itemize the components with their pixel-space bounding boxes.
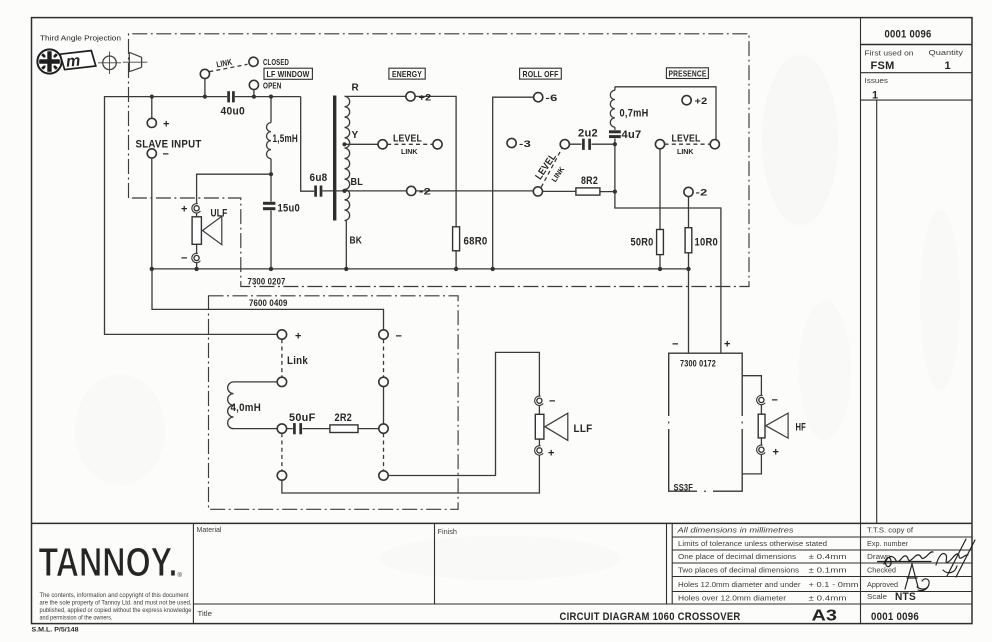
svg-text:-2: -2 <box>696 188 708 198</box>
svg-text:are the sole property of Tanno: are the sole property of Tannoy Ltd. and… <box>40 600 192 607</box>
svg-text:−: − <box>672 339 679 351</box>
svg-text:T.T.S. copy of: T.T.S. copy of <box>867 528 913 535</box>
svg-text:LINK: LINK <box>677 147 694 156</box>
svg-text:LEVEL: LEVEL <box>672 134 701 145</box>
svg-text:Holes 12.0mm diameter and unde: Holes 12.0mm diameter and under <box>678 582 801 589</box>
svg-text:OPEN: OPEN <box>263 81 282 91</box>
svg-text:1,5mH: 1,5mH <box>273 133 299 145</box>
svg-text:+: + <box>181 204 188 216</box>
svg-text:LF WINDOW: LF WINDOW <box>267 69 311 79</box>
svg-text:+ 0.1 - 0mm: + 0.1 - 0mm <box>809 582 859 589</box>
svg-text:ULF: ULF <box>211 207 228 219</box>
svg-text:R: R <box>352 83 360 94</box>
svg-text:−: − <box>181 253 188 265</box>
svg-text:Material: Material <box>197 527 222 534</box>
svg-text:7300 0207: 7300 0207 <box>248 277 286 287</box>
svg-text:+: + <box>773 447 780 459</box>
svg-text:15u0: 15u0 <box>278 203 301 215</box>
svg-text:Link: Link <box>287 355 309 367</box>
svg-text:LLF: LLF <box>574 423 593 435</box>
svg-text:Quantity: Quantity <box>929 50 964 57</box>
svg-text:± 0.4mm: ± 0.4mm <box>809 596 847 603</box>
svg-text:6u8: 6u8 <box>310 172 328 184</box>
svg-text:Two places of decimal dimensio: Two places of decimal dimensions <box>678 568 800 575</box>
svg-text:-3: -3 <box>519 139 531 149</box>
svg-text:Scale: Scale <box>867 594 887 601</box>
svg-text:HF: HF <box>796 422 807 434</box>
svg-text:Approved: Approved <box>867 582 898 589</box>
svg-text:0001 0096: 0001 0096 <box>885 29 932 41</box>
svg-text:-2: -2 <box>419 187 431 197</box>
svg-text:BL: BL <box>351 177 364 188</box>
svg-text:2u2: 2u2 <box>578 127 598 139</box>
svg-text:All dimensions in millimetres: All dimensions in millimetres <box>676 528 794 535</box>
svg-text:2R2: 2R2 <box>335 412 353 424</box>
svg-text:−: − <box>549 396 556 408</box>
svg-text:7600 0409: 7600 0409 <box>249 298 288 308</box>
svg-text:-6: -6 <box>546 93 558 103</box>
svg-text:S.M.L. P/5/148: S.M.L. P/5/148 <box>32 627 79 634</box>
svg-text:m: m <box>65 53 81 71</box>
svg-text:®: ® <box>178 572 183 579</box>
svg-text:+2: +2 <box>419 92 432 102</box>
svg-text:0,7mH: 0,7mH <box>620 107 649 119</box>
svg-text:Limits of tolerance unless oth: Limits of tolerance unless otherwise sta… <box>678 541 827 548</box>
svg-text:First used on: First used on <box>865 51 914 58</box>
svg-text:Title: Title <box>198 611 213 618</box>
svg-text:± 0.1mm: ± 0.1mm <box>809 568 847 575</box>
svg-text:Checked: Checked <box>867 568 896 575</box>
svg-text:8R2: 8R2 <box>581 175 598 187</box>
svg-text:published, applied or copied w: published, applied or copied without the… <box>40 607 192 614</box>
svg-text:1: 1 <box>872 90 878 102</box>
svg-text:1: 1 <box>945 60 951 72</box>
svg-text:TANNOY.: TANNOY. <box>39 539 178 585</box>
svg-text:Third Angle Projection: Third Angle Projection <box>40 34 121 43</box>
svg-text:Y: Y <box>352 130 359 141</box>
svg-text:+2: +2 <box>695 96 708 106</box>
svg-text:NTS: NTS <box>895 591 916 603</box>
svg-text:−: − <box>772 395 779 407</box>
svg-text:Finish: Finish <box>438 529 458 536</box>
svg-text:PRESENCE: PRESENCE <box>669 68 707 78</box>
svg-text:FSM: FSM <box>871 60 895 72</box>
svg-text:SS3F: SS3F <box>674 483 694 493</box>
svg-text:ROLL OFF: ROLL OFF <box>523 69 559 79</box>
svg-text:LEVEL: LEVEL <box>393 134 422 145</box>
svg-text:10R0: 10R0 <box>695 236 719 248</box>
svg-text:The contents, information and: The contents, information and copyright … <box>40 592 189 599</box>
svg-text:7300 0172: 7300 0172 <box>680 359 716 369</box>
svg-text:4,0mH: 4,0mH <box>231 402 262 414</box>
svg-text:CIRCUIT DIAGRAM 1060 CROSSOVER: CIRCUIT DIAGRAM 1060 CROSSOVER <box>560 611 741 623</box>
svg-text:−: − <box>396 331 403 343</box>
svg-text:A3: A3 <box>812 608 838 625</box>
svg-text:4u7: 4u7 <box>622 129 642 141</box>
svg-text:0001 0096: 0001 0096 <box>871 611 919 623</box>
svg-text:Exp. number: Exp. number <box>867 541 909 548</box>
svg-text:+: + <box>295 331 302 343</box>
svg-text:and permission of the owners.: and permission of the owners. <box>40 615 113 622</box>
svg-text:CLOSED: CLOSED <box>263 57 289 67</box>
svg-text:± 0.4mm: ± 0.4mm <box>809 554 847 561</box>
svg-text:68R0: 68R0 <box>464 235 488 247</box>
svg-text:+: + <box>724 339 731 351</box>
svg-text:Holes over 12.0mm diameter: Holes over 12.0mm diameter <box>678 596 787 603</box>
svg-text:LINK: LINK <box>401 147 418 156</box>
svg-text:+: + <box>163 119 170 131</box>
svg-text:Issues: Issues <box>865 78 889 85</box>
svg-text:−: − <box>163 149 170 161</box>
svg-text:ENERGY: ENERGY <box>392 69 422 79</box>
svg-text:One place of decimal dimension: One place of decimal dimensions <box>678 554 797 561</box>
svg-text:+: + <box>548 448 555 460</box>
svg-text:BK: BK <box>350 236 363 247</box>
svg-text:50uF: 50uF <box>289 412 316 424</box>
svg-text:40u0: 40u0 <box>221 106 246 118</box>
svg-text:50R0: 50R0 <box>631 236 654 248</box>
